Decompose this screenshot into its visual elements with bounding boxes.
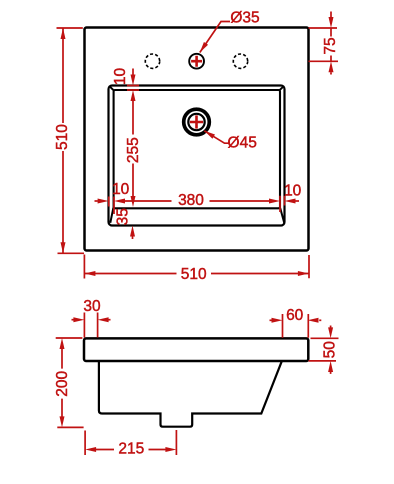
svg-text:35: 35 [114, 208, 131, 225]
dim 10 top arrow [132, 69, 134, 75]
dim 510 bottom extension lines [84, 255, 309, 279]
svg-text:10: 10 [112, 68, 129, 86]
svg-text:60: 60 [286, 307, 304, 324]
basin corner edge BL [110, 208, 113, 223]
optional faucet hole left (dashed) [145, 54, 159, 68]
svg-text:10: 10 [284, 183, 302, 200]
basin floor [114, 90, 280, 208]
svg-text:380: 380 [178, 192, 204, 209]
dim 75 extension lines [309, 28, 339, 61]
dim 10 left ticks [109, 197, 114, 215]
faucet hole cross [191, 56, 202, 67]
dim 200 extension lines [56, 338, 84, 427]
svg-text:Ø45: Ø45 [228, 135, 257, 152]
svg-text:200: 200 [54, 370, 71, 396]
dim 255 line [132, 101, 134, 196]
svg-text:75: 75 [322, 37, 339, 54]
sink outer square (top view) [85, 28, 309, 251]
dim 10 top ticks [127, 86, 139, 91]
svg-text:255: 255 [125, 137, 142, 163]
basin corner edge BR [280, 208, 284, 223]
svg-text:510: 510 [181, 266, 207, 283]
svg-text:10: 10 [112, 181, 130, 198]
dim 215 line [96, 449, 166, 451]
label O45 leader [204, 131, 228, 143]
drain cross [190, 115, 203, 128]
dim 510 bottom line [84, 273, 309, 275]
svg-text:Ø35: Ø35 [230, 9, 259, 26]
dim 380 line [125, 200, 269, 202]
svg-text:215: 215 [118, 441, 144, 458]
front view basin body [99, 361, 282, 427]
dim 50 ticks [309, 338, 339, 361]
basin corner edge TR [279, 87, 283, 91]
dim 35 lower arrow [132, 237, 134, 240]
basin corner edge TL [110, 87, 114, 91]
dim 75 line [330, 12, 332, 75]
dim 215 ticks [85, 430, 176, 455]
svg-text:50: 50 [321, 341, 338, 359]
front view slab [84, 338, 308, 361]
dim 510 left extension lines [57, 28, 85, 253]
dim 30 arrows [72, 319, 74, 321]
dim 60 arrows [270, 319, 272, 321]
dim 50 arrows [330, 326, 332, 328]
drain outer ring [184, 109, 210, 135]
optional faucet hole right (dashed) [233, 54, 247, 68]
dim 60 ticks [283, 314, 309, 338]
dim 510 left line [62, 28, 64, 253]
svg-text:30: 30 [83, 298, 101, 315]
dim 10 right arrow [296, 200, 300, 202]
dim 200 line [61, 349, 63, 417]
dim 10 left arrow [95, 200, 98, 202]
svg-text:510: 510 [54, 124, 71, 150]
faucet hole center [189, 54, 204, 69]
basin opening rim [109, 86, 285, 226]
dim 30 ticks [84, 313, 97, 338]
drain inner ring [188, 114, 204, 130]
dim 10 right ticks [280, 196, 285, 212]
label O35 leader [200, 22, 230, 53]
